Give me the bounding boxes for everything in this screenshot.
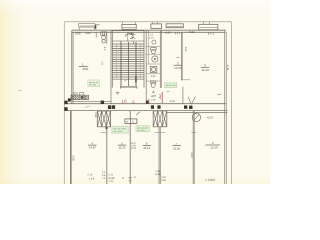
stair enclosure	[112, 31, 144, 88]
bottom cluster C5 near wall160	[155, 170, 167, 182]
room divider wall mid-right lower	[182, 87, 184, 104]
left porch (hatched stairs)	[97, 111, 110, 127]
main cross wall upper line	[64, 103, 226, 105]
lower wing wall x193.5	[193, 111, 194, 184]
diagonal mark above shed box	[136, 112, 140, 116]
red blob	[159, 94, 161, 99]
overhang outline left/top/right thin line	[64, 22, 231, 184]
svg-text:4,44: 4,44	[226, 65, 230, 71]
window bay B3	[151, 22, 162, 29]
small dash mid room	[176, 56, 179, 58]
svg-text:6: 6	[146, 142, 148, 146]
svg-text:x 0,9: x 0,9	[89, 177, 95, 180]
svg-text:4,50: 4,50	[184, 47, 187, 52]
svg-text:11,69: 11,69	[210, 146, 218, 150]
left exterior wall upper	[72, 30, 73, 104]
bath fixtures: basin square	[150, 66, 157, 72]
green stamp box G3 lower left	[112, 127, 128, 134]
svg-text:•2,07: •2,07	[207, 115, 214, 119]
bathroom column right wall	[160, 31, 161, 89]
bath fixtures: wc2	[151, 81, 156, 88]
window bay B2	[122, 22, 136, 30]
main cross wall lower line	[64, 110, 227, 112]
window tick group b	[208, 32, 213, 34]
kitchen duct wall	[106, 32, 108, 44]
room fraction 7/21.60	[172, 142, 181, 150]
svg-text:6,22: 6,22	[189, 30, 195, 34]
svg-text:8: 8	[204, 64, 206, 68]
room fraction 9/11.69 right	[206, 141, 221, 150]
svg-text:5: 5	[121, 141, 123, 145]
svg-text:Б: Б	[132, 120, 134, 123]
svg-text:2,05: 2,05	[151, 98, 156, 101]
red stroke right of bath wall	[161, 92, 163, 104]
stair upper landing line	[112, 41, 144, 44]
faint green dash hall	[166, 91, 170, 93]
svg-text:4: 4	[92, 141, 94, 145]
kitchen/stair party wall	[110, 31, 112, 104]
bottom cluster stack left of wall107	[102, 171, 106, 180]
svg-text:и 2009: и 2009	[205, 178, 215, 182]
marks above kitchen counter	[74, 93, 84, 95]
kitchen south wall	[72, 100, 111, 102]
bathroom column left wall	[145, 31, 147, 104]
bath tiny labels	[149, 34, 156, 79]
small dash near right wall	[218, 93, 221, 95]
right exterior wall	[225, 30, 227, 184]
svg-text:3: 3	[177, 61, 179, 65]
door sill ticks y132.4	[101, 131, 197, 133]
lower wing wall x107	[106, 127, 108, 184]
door lintel tick over divider	[181, 79, 190, 81]
dark blob on stair rail	[135, 76, 137, 83]
svg-text:10,93: 10,93	[174, 66, 182, 70]
svg-text:1,05: 1,05	[151, 75, 156, 78]
stair up-arrow squiggle	[125, 33, 136, 38]
shed box A|B between porches	[125, 119, 137, 124]
bathroom inner partition line	[147, 31, 149, 65]
room fraction 3/10.93 mid	[174, 61, 182, 69]
svg-text:0,78: 0,78	[131, 147, 136, 150]
window bay B5	[199, 22, 218, 30]
svg-text:0,9: 0,9	[102, 174, 106, 177]
svg-text:Δ: Δ	[132, 99, 135, 104]
lower wing wall x159.7 (double)	[159, 127, 160, 184]
stair flight edge rails	[121, 42, 136, 86]
svg-text:17,90: 17,90	[82, 67, 88, 71]
red scribble hall	[116, 92, 119, 95]
svg-text:Δ: Δ	[152, 90, 155, 94]
kitchen niche left edge	[95, 32, 97, 37]
bath fixtures: boiler circle	[152, 56, 158, 62]
room fraction 1/17.90 kitchen	[79, 63, 89, 72]
svg-text:1,07: 1,07	[149, 36, 154, 39]
svg-text:1,90: 1,90	[108, 180, 113, 183]
green stamp box G2 mid room	[165, 83, 177, 88]
window bay B4	[166, 24, 183, 28]
svg-text:21,60: 21,60	[173, 146, 180, 150]
svg-text:7: 7	[175, 142, 177, 146]
lower wing top wall second line right part	[167, 111, 227, 113]
svg-text:18,10: 18,10	[201, 68, 209, 72]
wall stub right of pier	[96, 24, 99, 26]
window tick group a	[176, 32, 180, 34]
svg-text:1: 1	[82, 63, 84, 67]
stair treads	[112, 44, 144, 79]
wall pier block	[95, 25, 96, 29]
room fraction 6/14.10	[143, 142, 151, 150]
svg-text:3,60: 3,60	[190, 152, 193, 158]
svg-text:3,60: 3,60	[75, 31, 81, 35]
stack labels right of wall130	[131, 142, 136, 150]
bottom stack left of wall130	[129, 177, 133, 183]
svg-text:4=: 4=	[134, 176, 137, 179]
room fraction 5/11.02	[118, 141, 126, 149]
bath fixtures: sink circle	[152, 40, 156, 44]
kitchen counter row	[71, 95, 89, 99]
svg-text:3,19: 3,19	[71, 155, 75, 161]
lower wing centre wall x130	[129, 111, 131, 184]
bath fixtures: wc tank+bowl	[151, 48, 156, 54]
green stamp box G1 kitchen	[88, 80, 100, 87]
red tick left of bath wall	[148, 99, 150, 104]
left exterior wall lower	[71, 111, 72, 185]
circle slash	[194, 114, 200, 120]
room fraction 8/18.10 right	[201, 64, 210, 72]
svg-text:щ: щ	[122, 176, 124, 179]
column circle lower right	[192, 113, 200, 121]
green stamp box G4 lower centre	[136, 126, 149, 132]
black jamb squares on cross wall	[64, 98, 192, 110]
svg-text:0,9: 0,9	[129, 177, 133, 180]
svg-text:2,58: 2,58	[94, 112, 97, 117]
svg-text:4,80: 4,80	[85, 32, 91, 35]
svg-text:2,77: 2,77	[85, 106, 90, 109]
svg-text:0,90: 0,90	[161, 179, 166, 182]
svg-text:A: A	[126, 120, 128, 123]
svg-text:2,1: 2,1	[129, 180, 133, 183]
bottom cluster C2 green+dark	[108, 173, 115, 183]
pink smudge on stair landing	[124, 80, 127, 82]
svg-text:4,50: 4,50	[165, 30, 171, 34]
svg-text:1,2: 1,2	[102, 177, 106, 180]
svg-text:2,10: 2,10	[87, 174, 92, 177]
svg-text:2,6: 2,6	[101, 62, 104, 66]
bathroom cell dividers	[146, 46, 160, 81]
svg-text:2,80: 2,80	[129, 32, 135, 35]
right porch (hatched stairs)	[153, 111, 167, 127]
bottom cluster C1 2.10	[87, 174, 95, 181]
stair faint mid verticals	[117, 44, 141, 80]
window bay B1	[79, 24, 95, 31]
porch corner block	[106, 127, 108, 129]
margin pencil dash	[19, 89, 22, 91]
svg-text:2,1: 2,1	[102, 171, 106, 174]
svg-text:14,10: 14,10	[143, 146, 150, 150]
svg-text:2,08: 2,08	[170, 100, 176, 103]
svg-text:1б: 1б	[121, 99, 127, 104]
stair mid tick	[127, 32, 129, 41]
svg-text:14,87: 14,87	[89, 146, 97, 150]
svg-text:9: 9	[212, 141, 214, 145]
kitchen stove rect	[101, 32, 107, 35]
room divider wall mid-right upper	[181, 32, 182, 80]
top exterior wall (double line)	[72, 30, 226, 32]
door leaf diagonals	[188, 97, 195, 105]
svg-text:11,02: 11,02	[119, 146, 126, 150]
kitchen sink circles	[102, 36, 106, 43]
stair bottom landing line	[120, 86, 136, 88]
svg-text:4,2: 4,2	[103, 47, 106, 51]
room fraction 4/14.87	[88, 141, 97, 149]
